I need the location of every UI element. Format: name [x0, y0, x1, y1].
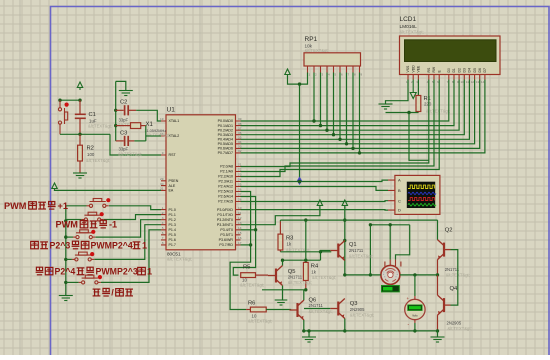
wire rail to K4 [66, 258, 72, 260]
svg-text:P2.5/A13: P2.5/A13 [218, 190, 233, 194]
svg-text:VEE: VEE [417, 65, 421, 73]
R5 body [241, 273, 256, 278]
ground (bottom left) [302, 337, 316, 342]
wire net to R4 bottom [262, 289, 306, 291]
wire RP1 pin5 pullup [333, 73, 335, 135]
node Q1 emitter rail [343, 273, 346, 276]
wire to EA pin [55, 189, 162, 192]
wire bottom ground rail [304, 330, 438, 332]
oscilloscope trace A (yellow) [408, 185, 434, 188]
wire P0.1 to LCD D1 [241, 80, 455, 126]
svg-text:1: 1 [142, 241, 147, 251]
node gnd rail left end [302, 329, 305, 332]
ground (reset) [73, 173, 87, 178]
power +5V arrow (reset) [77, 82, 82, 90]
wire RP1 pin2 pullup [313, 73, 315, 122]
svg-text:RP1: RP1 [305, 36, 318, 43]
wire Q2 emitter to rail [437, 260, 439, 275]
wire RP1 pin6 pullup [339, 73, 341, 140]
svg-text:P1.3: P1.3 [169, 223, 176, 227]
svg-text:U1: U1 [167, 107, 176, 114]
svg-text:P2.0/A8: P2.0/A8 [220, 165, 233, 169]
svg-text:1k: 1k [287, 242, 292, 247]
wire Q1 base [321, 251, 331, 252]
svg-text:/: / [111, 288, 114, 298]
svg-text:-1: -1 [109, 220, 117, 230]
svg-text:2N2905: 2N2905 [447, 321, 462, 326]
svg-text:10: 10 [460, 80, 464, 84]
wire RP1 pin7 pullup [346, 73, 348, 144]
svg-text:1: 1 [162, 206, 164, 210]
push button K3 actuator dot [91, 230, 95, 234]
wire K5 to P1.4 [101, 230, 161, 283]
R1 bottom lead [417, 112, 419, 113]
node motor pin1 [389, 223, 392, 226]
node Q2/Q4 rail [436, 273, 439, 276]
node rail2 branch [343, 218, 346, 221]
push button K2 [81, 212, 103, 221]
svg-text:P2^3: P2^3 [50, 241, 71, 251]
svg-text:P3.2/INT0: P3.2/INT0 [217, 218, 233, 222]
svg-text:7: 7 [162, 236, 164, 240]
node R4 top [304, 259, 307, 262]
node P0.6 pullup [351, 147, 354, 150]
svg-text:P2.6/A14: P2.6/A14 [218, 195, 233, 199]
node button top [58, 99, 61, 102]
R5 right lead [256, 274, 269, 276]
svg-text:B: B [398, 188, 401, 193]
wire P0.5 to LCD D5 [241, 80, 475, 144]
wire P3.7 stub ext [241, 244, 251, 246]
svg-text:VSS: VSS [406, 65, 410, 73]
node Q5 collector [281, 259, 284, 262]
RP1 pin stubs [308, 66, 360, 73]
svg-text:30: 30 [160, 182, 164, 186]
wire P2.3 to scope A [241, 180, 389, 181]
motor pin stubs [385, 260, 401, 267]
wire P3.0 to scope D [241, 209, 389, 212]
node C2 left [114, 109, 117, 112]
svg-text:P0.5/AD5: P0.5/AD5 [218, 142, 233, 146]
wire RP1 pin4 pullup [326, 73, 328, 131]
svg-text:2N1711: 2N1711 [309, 303, 324, 308]
label reverse [36, 267, 153, 277]
wire RP1 pin3 pullup [320, 73, 322, 126]
svg-text:1: 1 [147, 267, 152, 277]
wire reset node [60, 133, 110, 135]
node gnd stem [307, 329, 310, 332]
svg-text:A: A [398, 178, 401, 183]
svg-text:D3: D3 [463, 68, 467, 72]
wire K4 to P1.3 [94, 225, 161, 260]
node rail motor left [369, 273, 372, 276]
oscilloscope trace D (green) [408, 204, 436, 206]
wire RP1 pin9 pullup [359, 73, 361, 153]
wire RW to P2.1 [241, 80, 435, 172]
R2 top lead [79, 134, 81, 145]
svg-text:Q2: Q2 [445, 228, 453, 234]
wire P3.4 stub ext [241, 229, 256, 231]
label start/pause [93, 288, 133, 298]
wire vcc rail2 drop [344, 207, 346, 275]
wire RP1 common to +5V [288, 73, 308, 85]
wire VSS to ground [386, 80, 409, 104]
push button K3 [73, 230, 95, 239]
node P0.2 pullup [325, 129, 328, 132]
svg-text:6: 6 [162, 231, 164, 235]
wire to RST pin [110, 134, 161, 155]
power arrow (LCD VDD) [410, 80, 416, 99]
svg-text:PWMP2^3: PWMP2^3 [96, 267, 138, 277]
oscilloscope pin stubs [388, 180, 395, 210]
label PWM duty -1 [56, 220, 118, 230]
svg-text:R2: R2 [87, 146, 94, 152]
transistor Q1 2N1711 [330, 241, 345, 261]
svg-text:100: 100 [87, 152, 95, 157]
transistor Q2 2N1711 [438, 240, 451, 260]
node R4 bottom / Q6 collector [304, 288, 307, 291]
oscilloscope body [395, 175, 440, 214]
svg-text:P0.6/AD6: P0.6/AD6 [218, 147, 233, 151]
svg-text:P2^4: P2^4 [55, 267, 76, 277]
svg-text:12: 12 [471, 80, 475, 84]
wire to XTAL2 [146, 135, 161, 137]
svg-text:&lt;TEXT&gt;: &lt;TEXT&gt; [147, 133, 171, 138]
svg-text:D1: D1 [452, 68, 456, 72]
wire motor right rail [400, 274, 438, 276]
svg-text:P0.4/AD4: P0.4/AD4 [218, 138, 233, 142]
LCD1 pin stubs [408, 75, 485, 80]
wire P2.7 to scope C [241, 200, 389, 203]
svg-text:P1.4: P1.4 [169, 228, 176, 232]
node P0.0 pullup [312, 119, 315, 122]
node Q4 emitter gnd [436, 329, 439, 332]
svg-text:P0.0/AD0: P0.0/AD0 [218, 119, 233, 123]
push button K1 [87, 199, 109, 208]
node voltmeter tap [413, 273, 416, 276]
svg-text:R6: R6 [248, 301, 255, 307]
stub gnd left [308, 331, 310, 337]
svg-text:P1.1: P1.1 [169, 213, 176, 217]
node R1 bottom [407, 111, 410, 114]
svg-text:PWM: PWM [4, 201, 27, 211]
svg-text:3: 3 [162, 216, 164, 220]
push button K1 actuator dot [106, 198, 110, 202]
R3 body [278, 234, 283, 250]
R6 left lead [246, 309, 250, 311]
svg-text:P3.7/RD: P3.7/RD [219, 243, 233, 247]
svg-text:P0.7/AD7: P0.7/AD7 [218, 151, 233, 155]
wire Q5 collector rail [283, 259, 321, 261]
transistor Q4 2N2905 [438, 295, 451, 315]
wire rail to K2 [66, 219, 82, 221]
svg-text:P2.1/A9: P2.1/A9 [220, 170, 233, 174]
svg-text:+: + [407, 296, 410, 301]
wire R6 to Q6 base [266, 309, 291, 311]
power +5V arrow (RP1) [285, 69, 290, 77]
svg-text:C2: C2 [120, 100, 127, 106]
svg-text:P3.3/INT1: P3.3/INT1 [217, 223, 233, 227]
wire button common rail [65, 206, 67, 295]
node C1 bottom / R2 top [78, 133, 81, 136]
svg-text:P1.5: P1.5 [169, 233, 176, 237]
svg-text:1k: 1k [311, 270, 316, 275]
oscilloscope trace C (red) [408, 198, 434, 201]
wire RS to P2.0 [241, 80, 429, 167]
svg-text:P3.0/RXD: P3.0/RXD [217, 208, 233, 212]
svg-text:P0.2/AD2: P0.2/AD2 [218, 128, 233, 132]
svg-text:EA: EA [169, 189, 174, 193]
svg-text:2N1711: 2N1711 [349, 248, 364, 253]
wire C2 to XTAL1 [136, 110, 161, 121]
svg-text:P0.1/AD1: P0.1/AD1 [218, 124, 233, 128]
svg-text:P0.3/AD3: P0.3/AD3 [218, 133, 233, 137]
svg-text:&lt;TEXT&gt;: &lt;TEXT&gt; [248, 319, 272, 324]
node Q3 emitter / gnd rail [343, 329, 346, 332]
svg-text:D0: D0 [447, 68, 451, 72]
svg-text:&lt;TEXT&gt;: &lt;TEXT&gt; [118, 151, 142, 156]
wire Q6 emitter down [303, 320, 305, 331]
wire rail to K5 [66, 281, 79, 283]
capacitor C2 [116, 105, 137, 115]
wire VEE to R1 [417, 80, 419, 96]
wire RP1 pin8 pullup [352, 73, 354, 149]
wire rail to R3 [279, 220, 281, 221]
wire motor top branch [370, 224, 409, 226]
svg-text:LCD1: LCD1 [400, 16, 417, 23]
svg-text:&lt;TEXT&gt;: &lt;TEXT&gt; [448, 326, 472, 331]
node P0.1 pullup [319, 124, 322, 127]
node P0.4 pullup [338, 138, 341, 141]
wire E to P2.2 [241, 80, 440, 177]
svg-text:Volts: Volts [412, 313, 418, 317]
wire Q4 lower down [437, 315, 439, 331]
wire K3 to P1.2 [95, 220, 161, 237]
svg-text:PSEN: PSEN [169, 179, 179, 183]
node K2 [64, 219, 67, 222]
node R4 column [304, 218, 307, 221]
capacitor C1 [75, 100, 86, 134]
U1 left pin stubs [161, 121, 166, 245]
reset button actuator dot [65, 103, 69, 107]
label PWM duty +1 [4, 201, 68, 211]
svg-text:2N1711: 2N1711 [288, 275, 303, 280]
push button K2 actuator dot [100, 212, 104, 216]
svg-text:P2.4/A12: P2.4/A12 [218, 185, 233, 189]
wire P2.6 to R5 [233, 197, 255, 276]
svg-text:&lt;TEXT&gt;: &lt;TEXT&gt; [312, 275, 336, 280]
wire P0.3 to LCD D3 [241, 80, 465, 135]
svg-text:&lt;TEXT&gt;: &lt;TEXT&gt; [400, 30, 424, 35]
svg-text:&lt;TEXT&gt;: &lt;TEXT&gt; [88, 124, 112, 129]
svg-text:C3: C3 [120, 131, 127, 137]
R4 body [303, 262, 308, 280]
motor rpm display [382, 286, 400, 292]
node Q1 collector [343, 239, 346, 242]
wire vcc drop [299, 84, 301, 181]
resistor R2 body [78, 145, 83, 161]
svg-text:2: 2 [162, 211, 164, 215]
motor brush dots [383, 272, 398, 278]
wire voltmeter to gnd rail [414, 323, 416, 331]
RP1 pin numbers [309, 73, 363, 77]
wire P2.5 to R6 [230, 192, 251, 310]
svg-text:Q4: Q4 [450, 286, 459, 292]
R3 bottom lead [279, 250, 281, 252]
power +5V arrow (rail2) [342, 200, 347, 208]
wire P0.4 to LCD D4 [241, 80, 470, 140]
svg-text:D7: D7 [483, 68, 487, 72]
node RP1 vcc branch [298, 82, 301, 85]
R4 bottom lead [305, 281, 307, 290]
wire P0.6 to LCD D6 [241, 80, 480, 149]
svg-text:D4: D4 [468, 68, 472, 72]
wire C3 right [134, 140, 145, 142]
svg-text:13: 13 [476, 80, 480, 84]
svg-text:29: 29 [160, 177, 164, 181]
oscilloscope trace B (blue) [408, 192, 436, 194]
push button K5 actuator dot [98, 275, 102, 279]
ground (LCD) [379, 104, 393, 109]
U1 body [166, 115, 236, 250]
push button RESET (vertical) [58, 100, 67, 134]
voltmeter body [405, 299, 425, 319]
capacitor C3 [116, 136, 135, 146]
svg-text:&lt;TEXT&gt;: &lt;TEXT&gt; [350, 313, 374, 318]
push button K4 actuator dot [90, 252, 94, 256]
ground (buttons) [59, 296, 73, 301]
svg-text:P1.7: P1.7 [169, 243, 176, 247]
svg-text:&lt;TEXT&gt;: &lt;TEXT&gt; [167, 257, 192, 262]
svg-text:9: 9 [162, 151, 164, 155]
node vcc marker [298, 180, 301, 183]
node P0.3 pullup [332, 133, 335, 136]
svg-text:RST: RST [169, 153, 177, 157]
wire K2 to P1.1 [104, 215, 161, 220]
node voltmeter gnd [413, 329, 416, 332]
transistor Q5 2N1711 [268, 266, 283, 286]
wire vcc to button/C1 [60, 99, 80, 101]
svg-text:P2.3/A11: P2.3/A11 [218, 180, 233, 184]
wire motor pin2 [396, 225, 410, 260]
node P3.7 tap [249, 243, 252, 246]
svg-text:D: D [398, 208, 401, 213]
svg-text:R5: R5 [243, 265, 250, 271]
U1 pin names [169, 119, 234, 247]
U1 pin numbers [160, 117, 242, 245]
svg-text:P3.4/T0: P3.4/T0 [220, 228, 233, 232]
svg-text:16: 16 [238, 236, 242, 240]
svg-text:&lt;TEXT&gt;: &lt;TEXT&gt; [86, 158, 110, 163]
svg-text:4: 4 [162, 221, 164, 225]
R2 bottom lead [79, 161, 81, 173]
node X1 left [114, 124, 117, 127]
svg-text:PWMP2^4: PWMP2^4 [91, 241, 133, 251]
node K5 [64, 281, 67, 284]
svg-text:11: 11 [238, 211, 241, 215]
power +5V arrow (P3.3 net) [317, 200, 322, 208]
wire Q6 collector up [303, 290, 305, 300]
LCD1 body [400, 36, 501, 75]
svg-text:P1.0: P1.0 [169, 208, 176, 212]
wire branch down to rail [369, 225, 371, 275]
svg-text:P3.6/WR: P3.6/WR [219, 238, 234, 242]
wire Q5 collector up [282, 260, 284, 265]
wire to voltmeter + [414, 275, 416, 296]
svg-text:D6: D6 [478, 68, 482, 72]
motor body [381, 265, 400, 284]
push button K4 [72, 252, 94, 261]
wire down to Q2 collector [437, 220, 439, 240]
node K3 [64, 235, 67, 238]
wire P0.2 to LCD D2 [241, 80, 460, 131]
power +5V arrow (EA) [52, 183, 57, 191]
svg-text:D2: D2 [457, 68, 461, 72]
svg-text:RS: RS [427, 67, 431, 72]
svg-text:XTAL1: XTAL1 [169, 119, 180, 123]
wire R3 to Q1 base [280, 251, 331, 253]
svg-text:P3.5/T1: P3.5/T1 [220, 233, 233, 237]
svg-text:P2.2/A10: P2.2/A10 [218, 175, 233, 179]
svg-text:ALE: ALE [169, 184, 176, 188]
stub gnd right [437, 331, 439, 337]
transistor Q3 2N2905 [330, 299, 345, 319]
svg-text:15: 15 [238, 231, 242, 235]
svg-text:&lt;TEXT&gt;: &lt;TEXT&gt; [426, 109, 450, 114]
node P3.4 tap [254, 228, 257, 231]
svg-text:PWM: PWM [56, 220, 79, 230]
wire motor pin1 up [389, 225, 391, 260]
ground (crystal) [119, 91, 133, 96]
LCD1 pin names [406, 65, 487, 73]
wire rail to Q4 upper [437, 275, 439, 295]
X1 body [131, 123, 141, 129]
wire P0.7 to LCD D7 [241, 80, 485, 153]
svg-text:&lt;TEXT&gt;: &lt;TEXT&gt; [240, 283, 264, 288]
node P0.5 pullup [345, 142, 348, 145]
push button K5 [79, 275, 101, 284]
svg-text:P2.7/A15: P2.7/A15 [218, 200, 233, 204]
crystal X1 [116, 125, 131, 127]
wire rail to K3 [66, 236, 73, 238]
U1 right pin stubs [236, 121, 241, 245]
wire crystal left rail [115, 81, 117, 140]
wire Q3 emitter down [344, 319, 346, 331]
wire P0.0 to LCD D0 [241, 80, 449, 122]
ground (bottom right) [431, 337, 445, 342]
svg-text:D5: D5 [473, 68, 477, 72]
wire branch down [320, 252, 322, 260]
svg-text:5: 5 [162, 226, 164, 230]
svg-text:+1: +1 [58, 201, 68, 211]
svg-text:P3.1/TXD: P3.1/TXD [217, 213, 233, 217]
motor commutator arcs [385, 268, 396, 281]
svg-text:P1.2: P1.2 [169, 218, 176, 222]
oscilloscope screen [407, 182, 435, 208]
node C1 top [78, 99, 81, 102]
wire X1 right [145, 126, 147, 141]
wire Q5 emitter down [282, 286, 284, 300]
node K4 [64, 258, 67, 261]
RP1 body [304, 53, 361, 66]
svg-text:C: C [398, 198, 401, 203]
svg-text:14: 14 [481, 80, 485, 84]
LCD1 screen [405, 40, 497, 62]
svg-text:2N2905: 2N2905 [350, 307, 365, 312]
svg-text:&lt;TEXT&gt;: &lt;TEXT&gt; [288, 280, 312, 285]
wire VEE net down [409, 113, 429, 161]
node P0.7 pullup [358, 151, 361, 154]
